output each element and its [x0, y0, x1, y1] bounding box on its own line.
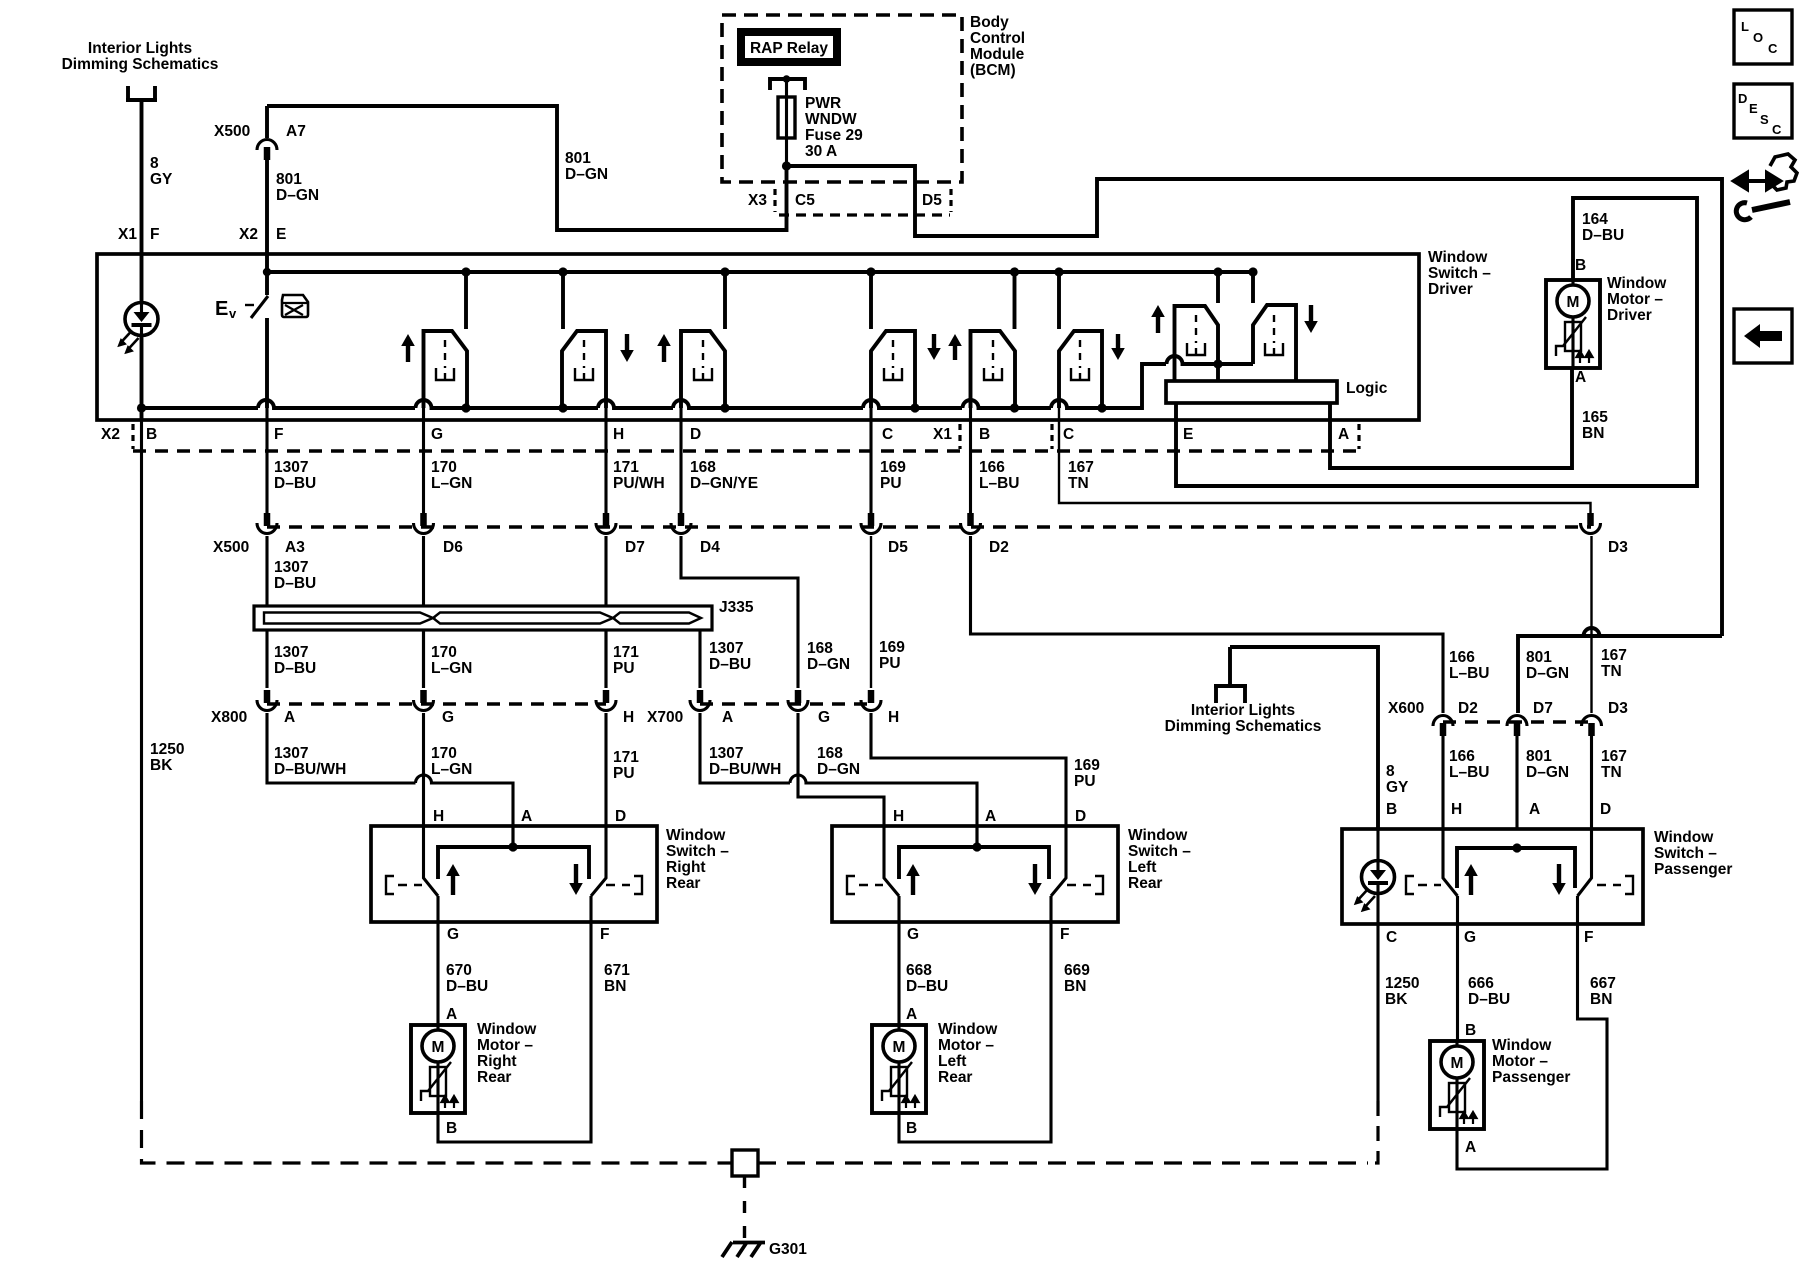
detent right Window Switch - Right Rear: [606, 876, 642, 894]
arrow up driver: [1151, 305, 1165, 333]
wire 169 PU X700-H to left rear switch D: [871, 713, 1066, 826]
svg-text:X700: X700: [647, 709, 683, 726]
wire 666 D-BU switch G to motor passenger B: [1456, 924, 1459, 1041]
connector X700 A: [690, 690, 710, 711]
fuse PWR WNDW Fuse 29 30 A: [778, 79, 795, 166]
ground bus inside driver switch (bottom): [142, 356, 1254, 408]
window motor Window Motor - Left Rear: [872, 1025, 926, 1113]
relay contact bar: [770, 75, 805, 90]
svg-text:X1: X1: [933, 426, 952, 443]
Logic module: [1166, 381, 1337, 403]
window lock switch Ev: [245, 254, 268, 408]
arrow down passenger: [1552, 864, 1566, 895]
wire 1250 BK passenger ground (solid): [1376, 924, 1379, 1101]
svg-text:D: D: [690, 426, 701, 443]
svg-text:M: M: [432, 1039, 445, 1056]
switch blade up Window Switch - Left Rear: [884, 826, 899, 896]
detent pass down: [1071, 340, 1089, 380]
svg-text:F: F: [1060, 926, 1069, 943]
arrow down driver: [1304, 305, 1318, 333]
svg-text:D2: D2: [989, 539, 1009, 556]
wire 171 PU D7 through J335: [604, 536, 607, 688]
arrow down RR: [620, 334, 634, 362]
wire passenger pin G: [1456, 896, 1459, 924]
switch contact driver up: [1175, 306, 1219, 381]
feed wire switch driver-up: [1216, 272, 1220, 303]
connector X500 A7: [257, 140, 277, 161]
connector row X600 dashed line: [1443, 720, 1592, 723]
dashed tick X1-C: [1050, 424, 1053, 449]
wire 671 BN switch F to motor RR B: [438, 922, 591, 1142]
svg-text:M: M: [893, 1039, 906, 1056]
svg-text:D7: D7: [625, 539, 645, 556]
feed bar inside Window Switch - Left Rear: [899, 847, 1049, 879]
svg-text:M: M: [1567, 294, 1580, 311]
switch blade down passenger: [1578, 829, 1592, 896]
svg-text:667BN: 667BN: [1590, 975, 1616, 1008]
node: fuse output junction: [782, 161, 791, 170]
detent left Window Switch - Left Rear: [847, 876, 883, 894]
svg-text:B: B: [1465, 1022, 1476, 1039]
switch blade up Window Switch - Right Rear: [424, 826, 439, 896]
arrow down Window Switch - Right Rear: [569, 864, 583, 895]
node passenger feed junction: [1512, 843, 1521, 852]
wire lamp to ground bus: [140, 335, 144, 420]
svg-text:A: A: [722, 709, 733, 726]
connector X600 D2: [1433, 716, 1453, 736]
svg-text:C: C: [1063, 426, 1074, 443]
connector X800 H: [596, 690, 616, 711]
wire 168 D-GN X700-G to left rear switch H: [798, 713, 884, 826]
node E wire / feed bus junction: [263, 268, 271, 276]
svg-text:X3: X3: [748, 192, 767, 209]
detent driver down: [1265, 315, 1283, 355]
svg-text:B: B: [1575, 257, 1586, 274]
svg-text:D2: D2: [1458, 700, 1478, 717]
detent RR down: [575, 340, 593, 380]
svg-text:A: A: [1338, 426, 1349, 443]
illumination lamp driver switch illumination: [119, 303, 159, 354]
svg-text:D6: D6: [443, 539, 463, 556]
window motor Window Motor - Right Rear: [411, 1025, 465, 1113]
off-page reference: Interior Lights Dimming Schematics (left): [126, 86, 157, 100]
wire 166 L-BU X600-D2 to passenger switch H: [1441, 735, 1444, 829]
svg-text:X800: X800: [211, 709, 247, 726]
wire 8 GY dimming to passenger switch B: [1230, 647, 1378, 829]
wire 167 TN pin C X1 to X500-D3: [1059, 408, 1591, 514]
wire Window Switch - Right Rear pin G: [436, 896, 439, 922]
arrow up pass: [948, 334, 962, 360]
wire 1307 D-BU/WH X800-A to right rear switch A: [267, 713, 513, 846]
svg-text:B: B: [1386, 801, 1397, 818]
wire 1307 D-BU A3 to J335: [265, 536, 268, 606]
svg-text:A: A: [906, 1006, 917, 1023]
connector X3 C5 / D5 dashed bracket: [775, 189, 951, 215]
RAP Relay: [741, 32, 837, 62]
connector X500 D2: [961, 513, 981, 534]
dashed tick X1-A: [1357, 424, 1360, 449]
Window Switch - Left Rear box: [832, 826, 1118, 922]
feed bar inside passenger switch: [1457, 848, 1575, 888]
illumination lamp passenger switch illumination: [1355, 861, 1395, 912]
Body Control Module (BCM) dashed box: [722, 15, 962, 182]
wire 170 L-GN D6 through J335: [422, 536, 425, 688]
svg-text:RAP Relay: RAP Relay: [750, 40, 828, 57]
wire G pin to X500-D6: [422, 408, 425, 514]
wire 670 D-BU switch G to motor RR A: [436, 922, 439, 1025]
ground rail dashed (right of splice): [758, 1161, 1368, 1164]
svg-text:C: C: [1772, 122, 1782, 137]
svg-text:F: F: [600, 926, 609, 943]
wire 801 D-GN branch through X3-D5 to body (right): [787, 166, 1723, 636]
icon diagnostic hand/wrench: [1734, 154, 1797, 220]
top feed bus inside driver switch: [267, 270, 1253, 274]
wire Window Switch - Right Rear pin A to feed bar: [511, 826, 514, 847]
svg-text:G: G: [431, 426, 443, 443]
svg-text:G: G: [447, 926, 459, 943]
arrow up passenger: [1464, 864, 1478, 895]
connector X500 A3: [257, 513, 277, 534]
svg-text:v: v: [229, 306, 237, 321]
svg-text:D: D: [1075, 808, 1086, 825]
svg-text:C5: C5: [795, 192, 815, 209]
node lamp-bus junction: [137, 403, 146, 412]
svg-text:B: B: [146, 426, 157, 443]
wire passenger pin F: [1576, 896, 1579, 924]
wire 1250 BK passenger ground (dashed to rail): [1368, 1101, 1378, 1163]
dashed tick X1: [958, 424, 961, 449]
Window Switch - Driver box: [97, 254, 1419, 420]
connector X500 D3: [1581, 513, 1601, 534]
connector X500 D6: [414, 513, 434, 534]
wire 8 GY through lamp to pin C: [1376, 829, 1379, 924]
svg-text:Logic: Logic: [1346, 380, 1388, 397]
svg-text:671BN: 671BN: [604, 962, 630, 995]
wire 668 D-BU switch G to motor LR A: [897, 922, 900, 1025]
feed wire switch RR-down: [561, 272, 565, 329]
svg-text:E: E: [215, 298, 228, 320]
wire H pin to X500-D7: [604, 408, 607, 514]
window lock icon: [282, 295, 308, 317]
ground G301: [722, 1242, 765, 1257]
svg-text:G: G: [907, 926, 919, 943]
svg-text:E: E: [1183, 426, 1193, 443]
switch contact LR up (pin D): [681, 331, 725, 408]
wire 801 D-GN body to X600-D7: [1518, 628, 1722, 713]
ground rail dashed (left of splice): [142, 1101, 733, 1163]
arrow up RR: [401, 334, 415, 362]
switch blade down Window Switch - Left Rear: [1051, 826, 1066, 896]
svg-text:H: H: [623, 709, 634, 726]
wire Window Switch - Left Rear pin F: [1049, 896, 1052, 922]
svg-text:A: A: [1529, 801, 1540, 818]
svg-text:D: D: [615, 808, 626, 825]
wire 8 GY from dimming schematics to driver switch X1-F: [140, 100, 144, 254]
connector X800 G: [414, 690, 434, 711]
arrow up LR: [657, 334, 671, 362]
svg-text:H: H: [433, 808, 444, 825]
arrow up Window Switch - Right Rear: [446, 864, 460, 895]
detent left passenger: [1406, 876, 1441, 894]
svg-text:M: M: [1451, 1055, 1464, 1072]
wire Window Switch - Right Rear pin F: [589, 896, 592, 922]
svg-text:A: A: [985, 808, 996, 825]
svg-text:H: H: [613, 426, 624, 443]
svg-text:Interior Lights: Interior Lights: [88, 40, 192, 57]
wire B X1 pin to X500-D2: [969, 408, 972, 514]
switch contact RR down (pin H): [562, 331, 606, 408]
detent RR up: [436, 340, 454, 380]
connector X600 D7: [1507, 716, 1527, 736]
Window Switch - Right Rear box: [371, 826, 657, 922]
switch contact passenger up (pin B X1): [971, 331, 1016, 408]
feed wire switch driver-down: [1251, 272, 1255, 303]
wire 1307 tap J335 to X700-A: [267, 630, 700, 688]
svg-text:C: C: [882, 426, 893, 443]
icon box back-arrow: [1734, 309, 1792, 363]
connector X800 A: [257, 690, 277, 711]
wire 801 D-GN X600-D7 to passenger switch A: [1515, 735, 1518, 829]
svg-text:G: G: [442, 709, 454, 726]
wire 170 L-GN X800-G to right rear switch H: [422, 713, 425, 826]
window motor Window Motor - Driver: [1546, 280, 1600, 368]
wire 667 BN switch F to motor passenger A: [1457, 924, 1607, 1169]
wire 167 TN X500-D3 to X600-D3: [1590, 536, 1592, 713]
wire C pin to X500-D5: [869, 408, 872, 514]
wire Logic pin A output to motor A: [1330, 368, 1572, 468]
wire 171 PU X800-H to right rear switch D: [604, 713, 607, 826]
svg-text:A: A: [1575, 369, 1586, 386]
wire 167 TN X600-D3 to passenger switch D: [1590, 735, 1593, 829]
svg-text:F: F: [1584, 929, 1593, 946]
wire 801 D-GN into driver switch pin X2-E: [265, 106, 269, 254]
node Window Switch - Right Rear feed junction: [508, 842, 517, 851]
connector X700 G: [788, 690, 808, 711]
svg-text:S: S: [1760, 112, 1769, 127]
svg-text:D: D: [1600, 801, 1611, 818]
svg-text:B: B: [906, 1120, 917, 1137]
svg-text:G: G: [1464, 929, 1476, 946]
svg-text:165BN: 165BN: [1582, 409, 1608, 442]
wire Window Switch - Left Rear pin G: [897, 896, 900, 922]
connector X500 D5: [861, 513, 881, 534]
svg-text:D5: D5: [888, 539, 908, 556]
window motor Window Motor - Passenger: [1430, 1041, 1484, 1129]
detent right passenger: [1597, 876, 1633, 894]
svg-text:A: A: [1465, 1139, 1476, 1156]
svg-text:Dimming Schematics: Dimming Schematics: [1165, 718, 1322, 735]
dashed tick X2: [131, 424, 134, 449]
icon box LOC: [1734, 10, 1792, 64]
svg-text:A: A: [521, 808, 532, 825]
wire 1307 D-BU/WH X700-A to left rear switch A: [700, 713, 977, 846]
svg-text:B: B: [979, 426, 990, 443]
feed bar inside Window Switch - Right Rear: [438, 847, 589, 879]
svg-text:F: F: [274, 426, 283, 443]
connector X500 D4: [671, 513, 691, 534]
switch contact passenger down (pin C X1): [1059, 331, 1102, 408]
wire 169 PU D5 to X700-H: [870, 536, 872, 688]
svg-text:X1: X1: [118, 226, 137, 243]
svg-text:C: C: [1386, 929, 1397, 946]
feed wire switch RR-up: [464, 272, 468, 329]
svg-text:C: C: [1768, 41, 1778, 56]
detent left Window Switch - Right Rear: [386, 876, 422, 894]
svg-text:Dimming Schematics: Dimming Schematics: [62, 56, 219, 73]
svg-text:A: A: [446, 1006, 457, 1023]
ground splice box: [732, 1150, 758, 1176]
svg-text:Interior Lights: Interior Lights: [1191, 702, 1295, 719]
svg-text:A3: A3: [285, 539, 305, 556]
feed wire switch pass-down: [1057, 272, 1061, 329]
connector row X700 dashed line: [700, 702, 871, 705]
Window Switch - Passenger box: [1342, 829, 1643, 924]
svg-text:D7: D7: [1533, 700, 1553, 717]
connector row X500 dashed line: [267, 525, 1591, 528]
svg-text:L: L: [1741, 19, 1749, 34]
wire 801 D-GN branch through X3-C5 to driver switch: [267, 106, 787, 230]
svg-text:D3: D3: [1608, 700, 1628, 717]
svg-text:D4: D4: [700, 539, 720, 556]
ground drop to G301: [743, 1176, 746, 1238]
svg-text:X2: X2: [101, 426, 120, 443]
wire 669 BN switch F to motor LR B: [899, 922, 1051, 1142]
feed wire switch LR-down: [869, 272, 873, 329]
detent pass up: [984, 340, 1002, 380]
switch blade up passenger: [1443, 829, 1458, 896]
arrow down LR: [927, 334, 941, 360]
svg-text:669BN: 669BN: [1064, 962, 1090, 995]
wire D pin to X500-D4: [679, 408, 682, 514]
connector X600 D3: [1582, 716, 1602, 736]
arrow up Window Switch - Left Rear: [906, 864, 920, 895]
connector row X800 dashed line: [267, 702, 606, 705]
svg-text:E: E: [1749, 101, 1758, 116]
svg-text:G301: G301: [769, 1241, 807, 1258]
svg-text:X500: X500: [213, 539, 249, 556]
detent right Window Switch - Left Rear: [1067, 876, 1103, 894]
feed wire switch pass-up: [1013, 272, 1017, 329]
connector X700 H: [861, 690, 881, 711]
detent driver up: [1187, 315, 1205, 355]
svg-text:X600: X600: [1388, 700, 1424, 717]
wire 166 L-BU X500-D2 to X600-D2: [971, 536, 1444, 713]
svg-text:A7: A7: [286, 123, 306, 140]
svg-text:A: A: [284, 709, 295, 726]
svg-text:D3: D3: [1608, 539, 1628, 556]
wire Logic pin E output: [1176, 198, 1697, 486]
svg-text:H: H: [1451, 801, 1462, 818]
connector X500 D7: [596, 513, 616, 534]
svg-text:B: B: [446, 1120, 457, 1137]
icon box DESC: [1734, 84, 1792, 138]
connector row X2/X1 dashed line: [133, 449, 1359, 452]
node Window Switch - Left Rear feed junction: [972, 842, 981, 851]
switch contact RR up (pin G): [424, 331, 468, 408]
wire 168 D-GN/YE D4 to X700-G: [681, 536, 798, 688]
switch blade down Window Switch - Right Rear: [591, 826, 606, 896]
svg-text:D: D: [1738, 91, 1747, 106]
svg-text:H: H: [893, 808, 904, 825]
detent LR up: [694, 340, 712, 380]
wire F pin to X500-A3: [265, 408, 268, 514]
splice pack J335: [254, 606, 712, 630]
svg-text:F: F: [150, 226, 159, 243]
arrow down Window Switch - Left Rear: [1028, 864, 1042, 895]
arrow down pass: [1111, 334, 1125, 360]
svg-text:H: H: [888, 709, 899, 726]
wire 1250 BK driver ground: [140, 420, 143, 1101]
svg-text:G: G: [818, 709, 830, 726]
wire driver-up contact to Logic: [1216, 364, 1220, 381]
switch contact LR down (pin C): [871, 331, 915, 408]
svg-text:D5: D5: [922, 192, 942, 209]
switch contact driver down: [1253, 305, 1296, 381]
svg-text:O: O: [1753, 30, 1763, 45]
feed wire switch LR-up: [723, 272, 727, 329]
svg-text:E: E: [276, 226, 286, 243]
detent LR down: [884, 340, 902, 380]
wire Window Switch - Left Rear pin A to feed bar: [975, 826, 978, 847]
svg-text:X2: X2: [239, 226, 258, 243]
svg-text:J335: J335: [719, 599, 754, 616]
off-page reference: Interior Lights Dimming Schematics (right): [1214, 647, 1247, 703]
svg-text:X500: X500: [214, 123, 250, 140]
